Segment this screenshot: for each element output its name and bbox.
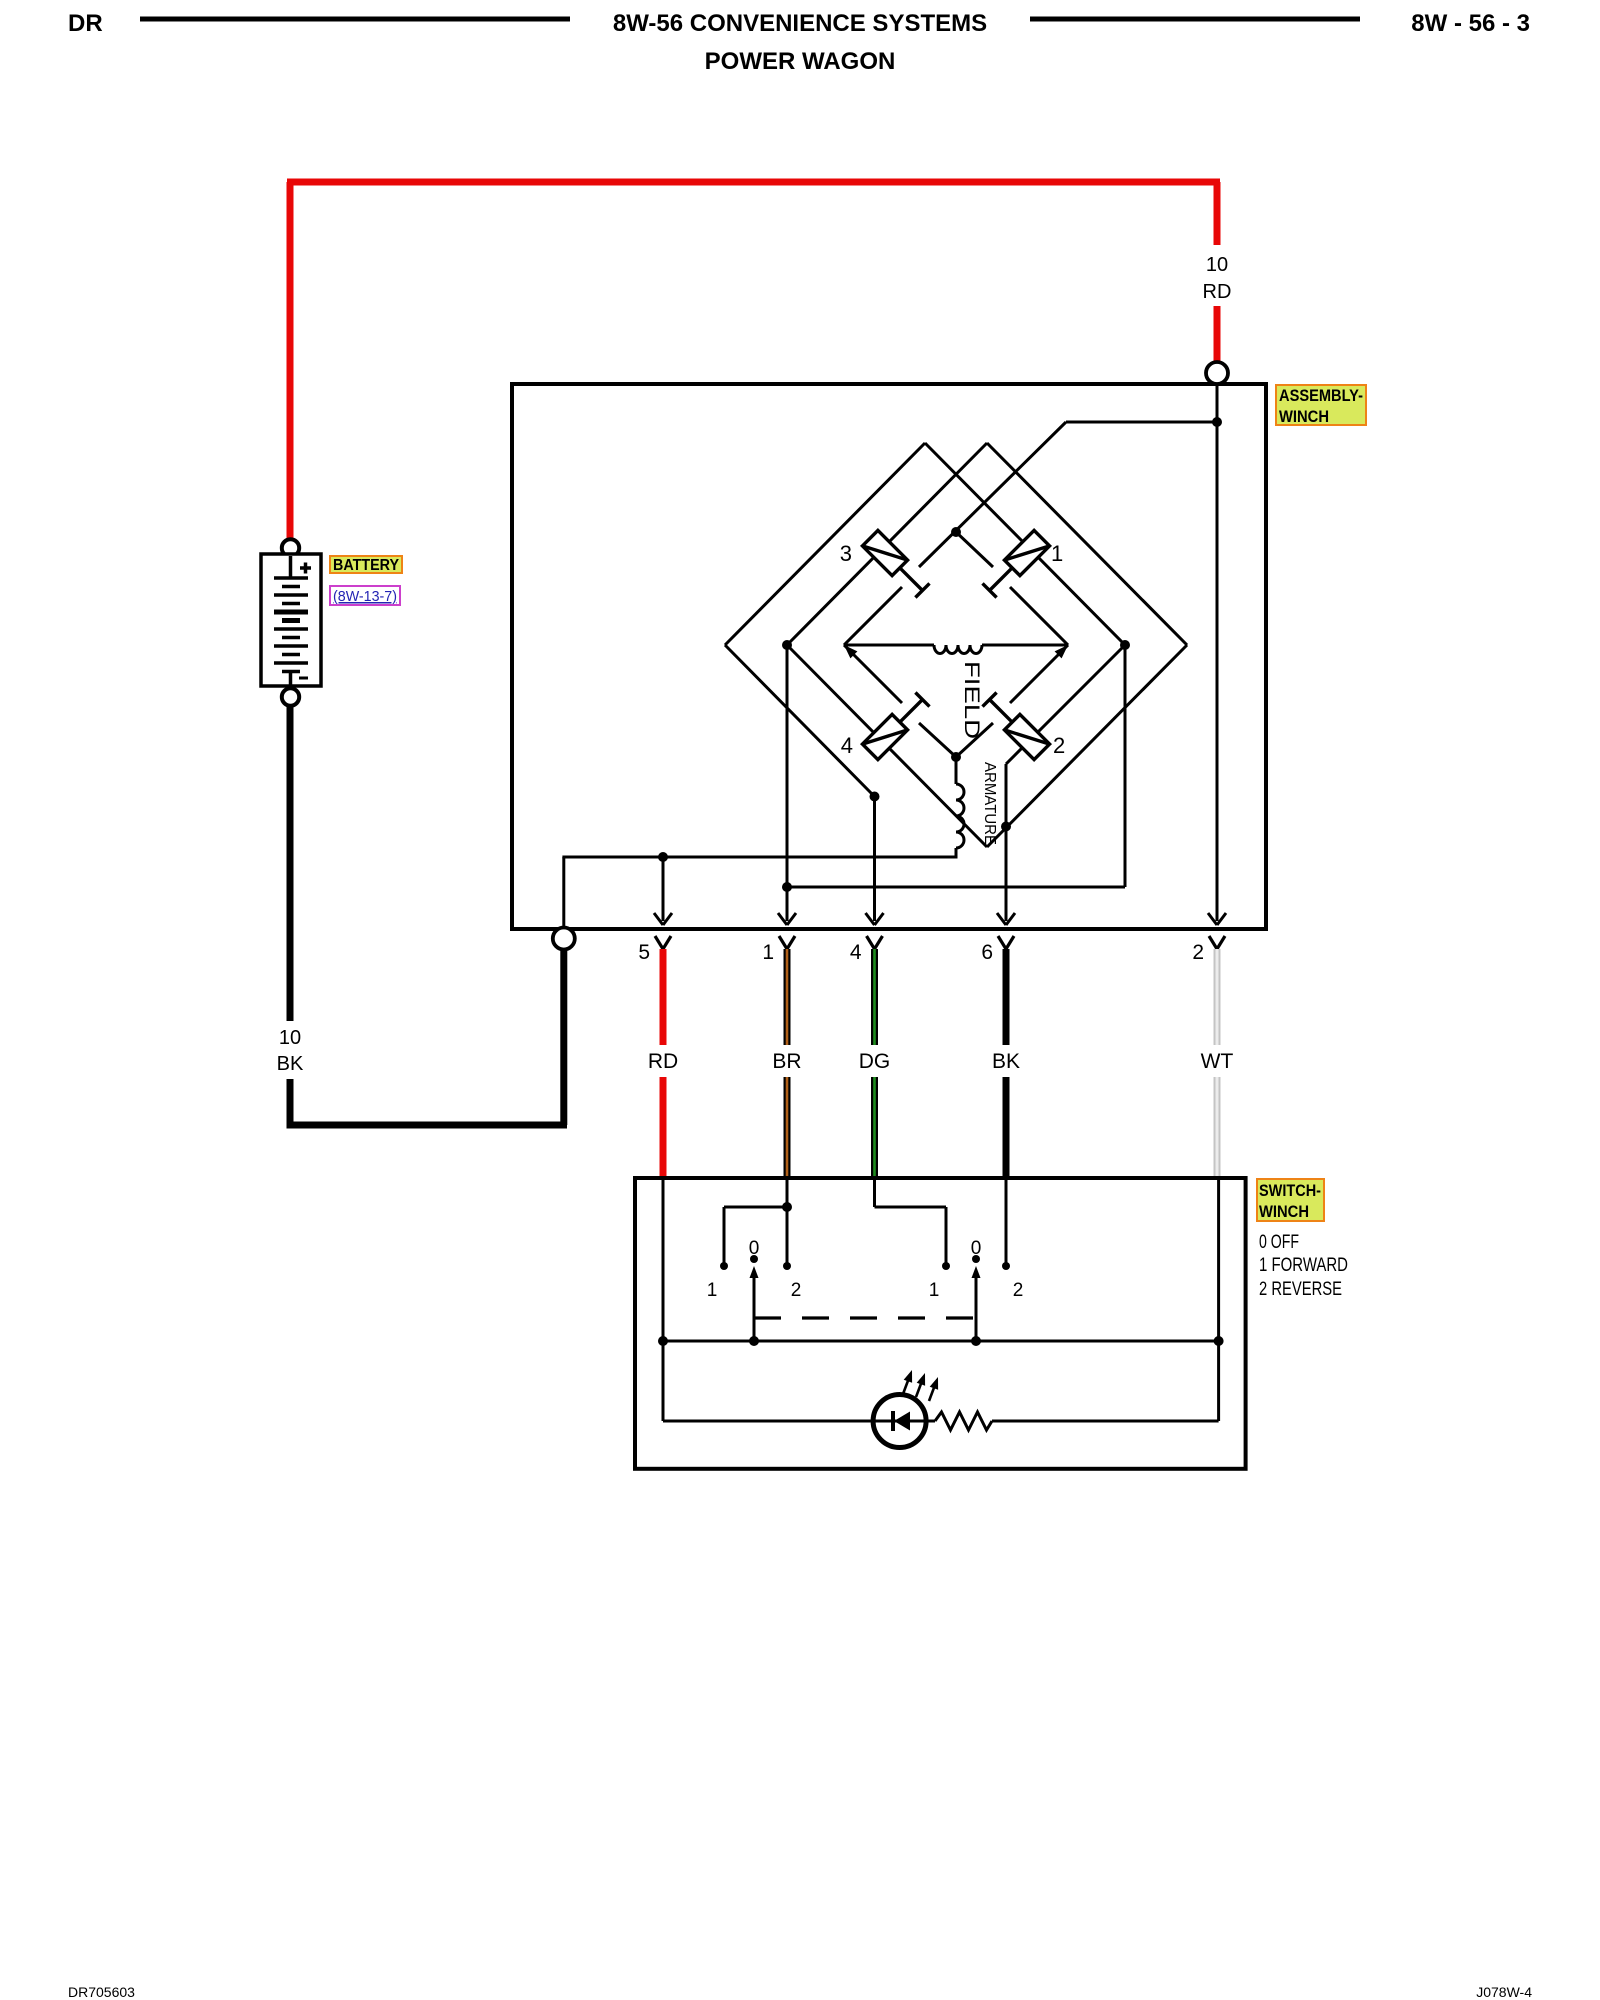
svg-text:1: 1 — [707, 1280, 718, 1301]
svg-text:SWITCH-: SWITCH- — [1259, 1181, 1321, 1200]
svg-text:4: 4 — [850, 941, 862, 964]
svg-text:WINCH: WINCH — [1279, 407, 1329, 426]
svg-text:(8W-13-7): (8W-13-7) — [333, 588, 397, 605]
svg-text:WINCH: WINCH — [1259, 1202, 1309, 1221]
svg-text:10: 10 — [1206, 254, 1228, 276]
svg-text:4: 4 — [841, 733, 853, 758]
svg-text:2: 2 — [1053, 733, 1065, 758]
svg-text:6: 6 — [981, 941, 993, 964]
svg-text:DR: DR — [68, 10, 103, 37]
svg-text:BK: BK — [992, 1050, 1020, 1073]
svg-text:RD: RD — [648, 1050, 678, 1073]
svg-text:0: 0 — [971, 1238, 982, 1259]
svg-text:J078W-4: J078W-4 — [1476, 1984, 1532, 2000]
svg-text:5: 5 — [638, 941, 650, 964]
svg-text:2 REVERSE: 2 REVERSE — [1259, 1279, 1342, 1300]
svg-text:BR: BR — [772, 1050, 801, 1073]
svg-text:1 FORWARD: 1 FORWARD — [1259, 1255, 1348, 1276]
svg-text:BATTERY: BATTERY — [333, 557, 399, 574]
svg-text:8W - 56 - 3: 8W - 56 - 3 — [1411, 10, 1530, 37]
svg-text:1: 1 — [1051, 541, 1063, 566]
svg-text:ARMATURE: ARMATURE — [981, 762, 998, 845]
svg-text:DR705603: DR705603 — [68, 1984, 135, 2000]
svg-text:BK: BK — [277, 1053, 304, 1075]
svg-text:WT: WT — [1201, 1050, 1234, 1073]
svg-text:2: 2 — [1192, 941, 1204, 964]
svg-text:3: 3 — [840, 541, 852, 566]
svg-text:0: 0 — [749, 1238, 760, 1259]
svg-text:RD: RD — [1203, 281, 1232, 303]
svg-text:2: 2 — [1013, 1280, 1024, 1301]
svg-text:1: 1 — [929, 1280, 940, 1301]
svg-text:2: 2 — [791, 1280, 802, 1301]
svg-text:DG: DG — [859, 1050, 891, 1073]
svg-text:ASSEMBLY-: ASSEMBLY- — [1279, 386, 1363, 405]
svg-text:8W-56 CONVENIENCE SYSTEMS: 8W-56 CONVENIENCE SYSTEMS — [613, 10, 987, 37]
svg-text:POWER WAGON: POWER WAGON — [705, 48, 896, 75]
svg-text:0 OFF: 0 OFF — [1259, 1232, 1299, 1253]
svg-text:1: 1 — [762, 941, 774, 964]
svg-text:FIELD: FIELD — [960, 661, 983, 739]
svg-text:10: 10 — [279, 1027, 301, 1049]
